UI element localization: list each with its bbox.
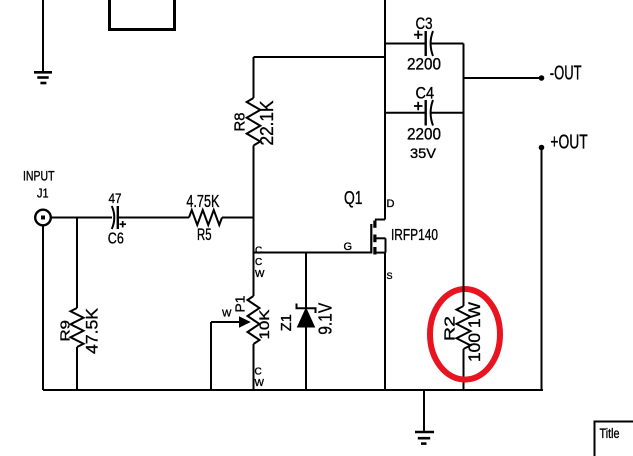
svg-text:R2: R2 — [442, 316, 459, 341]
wire bottom rail — [43, 389, 543, 391]
wire gate horizontal — [254, 252, 372, 254]
wire top-left ground stem — [42, 0, 44, 72]
wire Z1 bottom lead — [305, 327, 307, 391]
svg-text:C: C — [255, 367, 262, 378]
wire right vertical — [463, 44, 465, 307]
svg-text:47.5K: 47.5K — [83, 307, 102, 354]
zener Z1 cathode bar — [297, 304, 316, 314]
svg-text:-OUT: -OUT — [550, 63, 582, 85]
svg-text:G: G — [344, 241, 353, 253]
wire +OUT vertical — [541, 150, 543, 390]
svg-text:4.75K: 4.75K — [186, 191, 219, 211]
svg-text:C4: C4 — [416, 85, 435, 103]
wire R9 bottom lead — [76, 347, 78, 390]
wire top horizontal to drain line — [254, 56, 386, 58]
wire C6 to R5 — [119, 217, 189, 219]
svg-text:C: C — [255, 257, 262, 268]
wire R2 top lead over ellipse — [463, 284, 465, 298]
svg-text:C3: C3 — [416, 15, 433, 33]
svg-text:R8: R8 — [232, 113, 249, 132]
P1 wiper arrow — [240, 318, 249, 326]
svg-text:22.1K: 22.1K — [257, 101, 277, 146]
transistor Q1 MOSFET — [371, 220, 385, 255]
title block border — [595, 422, 633, 456]
capacitor C4 — [385, 112, 425, 114]
svg-text:C: C — [255, 246, 262, 257]
red highlight ellipse around R2 — [430, 289, 500, 380]
zener Z1 triangle — [298, 310, 313, 327]
svg-text:IRFP140: IRFP140 — [391, 227, 438, 244]
svg-text:+OUT: +OUT — [550, 131, 587, 153]
wire J1 down to rail — [42, 226, 44, 391]
wire Z1 top lead — [305, 253, 307, 309]
node +OUT dot — [539, 145, 545, 151]
block rectangle (partial, top) — [110, 0, 175, 30]
resistor R2 — [457, 306, 471, 349]
svg-text:W: W — [255, 269, 265, 280]
svg-text:J1: J1 — [37, 186, 49, 201]
svg-text:INPUT: INPUT — [23, 168, 55, 184]
wire R5 to node — [222, 217, 254, 219]
svg-text:47: 47 — [109, 190, 122, 206]
svg-text:W: W — [255, 378, 265, 389]
capacitor C6 — [112, 206, 115, 229]
connector J1 — [35, 210, 51, 226]
potentiometer P1 body — [248, 296, 260, 344]
svg-text:D: D — [387, 198, 395, 210]
svg-text:35V: 35V — [410, 145, 437, 161]
wire -OUT — [464, 77, 541, 79]
svg-text:Z1: Z1 — [278, 314, 295, 331]
svg-text:Title: Title — [600, 426, 620, 441]
svg-text:2200: 2200 — [407, 56, 441, 74]
wire R2 bottom lead — [463, 349, 465, 390]
svg-text:10K: 10K — [257, 310, 272, 340]
node -OUT dot — [539, 75, 545, 81]
wire R8 bottom to P1 top — [253, 146, 255, 297]
svg-text:R5: R5 — [197, 226, 212, 244]
svg-text:9.1V: 9.1V — [315, 303, 335, 335]
wire R9 top lead — [76, 218, 78, 309]
wire R8 top lead — [253, 57, 255, 98]
svg-text:S: S — [387, 271, 393, 281]
wire J1 to C6 — [51, 217, 112, 219]
svg-text:C6: C6 — [108, 231, 124, 248]
resistor R8 — [247, 98, 261, 146]
capacitor C3 — [385, 43, 425, 45]
svg-text:P1: P1 — [233, 295, 247, 312]
svg-text:Q1: Q1 — [344, 188, 363, 208]
svg-text:2200: 2200 — [407, 126, 441, 144]
wire P1 wiper vertical — [210, 322, 212, 390]
svg-text:R9: R9 — [58, 320, 73, 342]
ground G1 top-left — [34, 72, 52, 83]
wire P1 bottom lead — [253, 344, 255, 390]
svg-text:100 1W: 100 1W — [466, 302, 484, 362]
wire P1 wiper horizontal — [211, 321, 242, 323]
wire Q1 source down to rail — [384, 253, 386, 390]
resistor R5 — [189, 210, 222, 225]
ground G2 bottom — [423, 390, 425, 432]
svg-text:W: W — [222, 308, 232, 319]
wire main vertical drain line — [384, 0, 386, 220]
resistor R9 — [71, 308, 84, 347]
